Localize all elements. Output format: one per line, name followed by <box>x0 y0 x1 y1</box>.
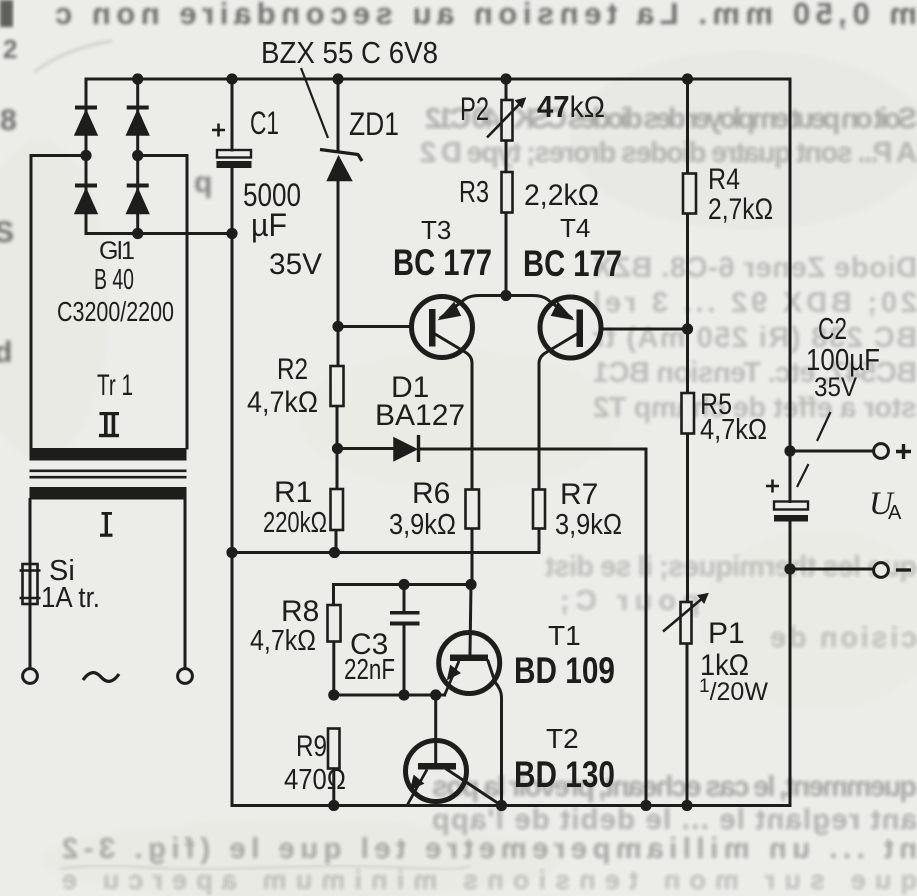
wire R8 C3 T1 node row <box>334 583 472 586</box>
wire D1 row to right drop <box>338 449 647 806</box>
resistor R8 <box>328 605 341 642</box>
transistor T4 BC177 <box>540 297 601 358</box>
node T4 base R4 R5 <box>682 323 693 334</box>
node top rail at P2 <box>500 73 511 84</box>
svg-text:470Ω: 470Ω <box>284 764 346 796</box>
wire T1 base wire row <box>334 694 445 697</box>
wire T3 collector to R6 <box>435 334 472 585</box>
node rail at D1 drop <box>640 800 651 811</box>
node AC left tap <box>80 150 91 161</box>
wire R9 column <box>332 769 335 806</box>
resistor R9 <box>328 729 340 769</box>
svg-text:20; BDX 92 ... 3 rel: 20; BDX 92 ... 3 rel <box>593 287 917 319</box>
bridge rectifier diode bottom-right <box>127 186 149 214</box>
AC terminal left <box>23 669 38 684</box>
wire C1 / left return column <box>231 79 234 806</box>
transistor T2 BD130 <box>406 741 467 806</box>
plus sign output <box>896 444 911 459</box>
svg-text:d: d <box>0 336 12 369</box>
svg-text:3,9kΩ: 3,9kΩ <box>555 509 622 541</box>
resistor R2 <box>331 366 344 406</box>
svg-text:R7: R7 <box>560 478 598 511</box>
wire AC input left (box top-left + side) <box>31 156 86 449</box>
output terminal minus <box>874 563 889 578</box>
minus sign output <box>896 568 911 571</box>
node bridge bottom at right arm <box>132 228 143 239</box>
AC terminal right <box>178 669 193 684</box>
node emitter junction T3 T4 <box>500 290 511 301</box>
svg-text:4,7kΩ: 4,7kΩ <box>247 386 318 419</box>
svg-text:R4: R4 <box>708 163 740 196</box>
svg-text:T2: T2 <box>546 723 579 754</box>
bridge rectifier diode bottom-left <box>75 186 97 214</box>
node plus output <box>784 445 795 456</box>
diode D1 <box>394 435 419 462</box>
svg-text:R9: R9 <box>296 730 327 763</box>
wire R1 bottom / R7 bottom <box>232 529 539 553</box>
node return column R1 row <box>226 547 237 558</box>
node ZD1 T3 base <box>332 321 343 332</box>
svg-text:Diode Zener 6-C8. BZX: Diode Zener 6-C8. BZX <box>592 252 917 284</box>
resistor R1 <box>331 489 344 530</box>
resistor R6 <box>466 490 480 529</box>
svg-text:A P... sont quatre diodes dror: A P... sont quatre diodes drores; type D… <box>420 137 917 169</box>
svg-text:cision de: cision de <box>770 622 917 654</box>
fuse Si <box>20 564 41 604</box>
transformer core lines <box>30 471 187 477</box>
svg-text:BC 177: BC 177 <box>523 243 622 284</box>
wire top positive rail <box>86 78 790 81</box>
label II winding <box>99 412 119 437</box>
svg-text:4,7kΩ: 4,7kΩ <box>250 625 316 657</box>
capacitor C3 <box>390 611 420 626</box>
svg-text:C2: C2 <box>818 311 847 346</box>
node bridge bottom at C1 <box>226 228 237 239</box>
node R6 bottom T1 base <box>465 579 476 590</box>
node top rail at C1 <box>226 73 237 84</box>
wire right output column <box>789 79 792 806</box>
svg-text:BZX 55 C 6V8: BZX 55 C 6V8 <box>261 35 438 70</box>
resistor R3 <box>502 172 513 213</box>
svg-text:µF: µF <box>251 207 287 243</box>
capacitor C1 (electrolytic) <box>212 124 251 168</box>
svg-text:R1: R1 <box>274 476 312 509</box>
potentiometer P2 <box>487 98 526 141</box>
svg-text:que les thermiques; il se dist: que les thermiques; il se dist <box>545 551 917 583</box>
svg-text:R6: R6 <box>412 477 450 510</box>
node top rail at ZD1 <box>332 73 343 84</box>
svg-text:2: 2 <box>3 34 17 64</box>
svg-text:2,7kΩ: 2,7kΩ <box>708 193 773 226</box>
node AC right tap <box>132 150 143 161</box>
wire R6 node to T1 base <box>470 585 471 654</box>
transistor T1 BD109 <box>439 633 500 696</box>
svg-text:47kΩ: 47kΩ <box>537 89 605 124</box>
wire transformer left lead <box>29 500 32 669</box>
svg-text:T1: T1 <box>548 620 581 651</box>
resistor R4 <box>683 174 696 214</box>
node T2 base tap <box>430 689 441 700</box>
svg-text:1A tr.: 1A tr. <box>41 582 100 614</box>
wire bridge bottom to C1 <box>86 232 232 235</box>
wire T4 emitter <box>506 296 571 318</box>
wire R4 R5 P1 column <box>686 79 690 806</box>
svg-text:BD 109: BD 109 <box>514 650 615 691</box>
node top rail at bridge right arm <box>132 73 143 84</box>
svg-text:P1: P1 <box>708 617 745 650</box>
svg-text:3,9kΩ: 3,9kΩ <box>389 509 456 541</box>
svg-text:BD 130: BD 130 <box>514 754 615 795</box>
svg-text:35V: 35V <box>269 248 322 281</box>
wire T4 base to R4 column <box>601 328 688 331</box>
resistor R5 <box>682 393 695 434</box>
wire R8 column <box>332 585 335 696</box>
node rail at P1 <box>681 800 692 811</box>
svg-text:quemment, le cas echeant, prev: quemment, le cas echeant, prevoir la pos <box>432 771 917 803</box>
svg-text:8: 8 <box>0 104 17 137</box>
svg-text:q: q <box>194 166 212 199</box>
svg-text:1/20W: 1/20W <box>699 676 768 706</box>
svg-text:22nF: 22nF <box>344 654 395 686</box>
svg-text:T3: T3 <box>421 215 451 245</box>
wire output plus <box>790 450 874 453</box>
node R8 bottom <box>328 689 339 700</box>
label I winding <box>100 512 113 537</box>
svg-text:B 40: B 40 <box>94 264 134 296</box>
wire T2 collector <box>447 770 500 805</box>
transformer winding II bar <box>30 448 187 461</box>
wire output minus <box>790 568 874 571</box>
svg-text:S: S <box>0 216 14 249</box>
wire bottom negative rail <box>232 804 788 807</box>
svg-text:m 0,50 mm. La tension au secon: m 0,50 mm. La tension au secondaire non … <box>55 0 917 31</box>
wire C3 column <box>403 585 406 696</box>
transformer winding I bar <box>30 487 187 500</box>
svg-text:2,2kΩ: 2,2kΩ <box>524 179 599 212</box>
wire AC input right (box top-right + side) <box>138 156 187 449</box>
node R1 bottom <box>329 547 340 558</box>
resistor R7 <box>533 490 545 529</box>
wire T2 base lead <box>434 695 437 762</box>
svg-text:4,7kΩ: 4,7kΩ <box>700 414 767 446</box>
wire T3 base <box>338 325 411 328</box>
svg-text:C3200/2200: C3200/2200 <box>57 296 174 327</box>
potentiometer P1 <box>663 594 708 644</box>
wire bridge left arm <box>85 79 88 234</box>
svg-text:A: A <box>888 502 902 524</box>
wire P2 R3 column <box>505 79 508 296</box>
wire ZD1 / R2 / R1 column <box>336 79 338 553</box>
svg-text:R3: R3 <box>459 174 489 209</box>
wire T1 collector drop <box>488 661 502 806</box>
bridge rectifier diode top-right <box>127 108 149 136</box>
svg-text:R2: R2 <box>277 353 308 386</box>
svg-text:BA127: BA127 <box>375 399 465 432</box>
faint pencil squiggle bottom <box>60 865 470 869</box>
node top rail at R4 <box>682 73 693 84</box>
svg-text:220kΩ: 220kΩ <box>263 507 327 539</box>
wire bridge right arm <box>136 79 139 234</box>
svg-text:35V: 35V <box>814 372 857 402</box>
faint pencil swoosh top-left <box>34 41 112 72</box>
wire T4 collector to R7 <box>539 335 576 490</box>
zener diode ZD1 <box>320 150 362 181</box>
node C3 bottom <box>398 689 409 700</box>
callout line C2 label to capacitor <box>797 412 831 487</box>
capacitor C2 (electrolytic) <box>766 480 808 522</box>
node C3 top <box>398 579 409 590</box>
svg-text:ZD1: ZD1 <box>349 106 399 142</box>
wire transformer right lead <box>184 500 187 669</box>
transistor T3 BC177 <box>412 297 473 358</box>
callout line BZX label to ZD1 <box>301 68 328 138</box>
wire T3 emitter <box>441 296 506 318</box>
svg-text:P2: P2 <box>460 91 489 127</box>
node rail at R9 <box>328 800 339 811</box>
svg-text:Gl1: Gl1 <box>99 237 134 265</box>
svg-text:R8: R8 <box>281 595 319 628</box>
bridge rectifier diode top-left <box>75 108 97 136</box>
svg-text:T4: T4 <box>560 213 590 243</box>
AC tilde symbol <box>83 673 119 682</box>
output terminal plus <box>874 444 889 459</box>
svg-text:Soit on peut employer des diod: Soit on peut employer des diodes CSK 140… <box>425 103 917 135</box>
node minus output <box>784 563 795 574</box>
svg-text:BC 177: BC 177 <box>393 242 492 283</box>
node R2 R1 D1 <box>332 443 343 454</box>
bleed-through faint left margin glyphs <box>0 104 17 369</box>
svg-text:Tr 1: Tr 1 <box>97 369 133 402</box>
bleed-through dark corner mark top-left <box>0 0 13 27</box>
svg-text:C1: C1 <box>250 105 279 141</box>
node rail at T1 T2 collectors <box>496 800 507 811</box>
